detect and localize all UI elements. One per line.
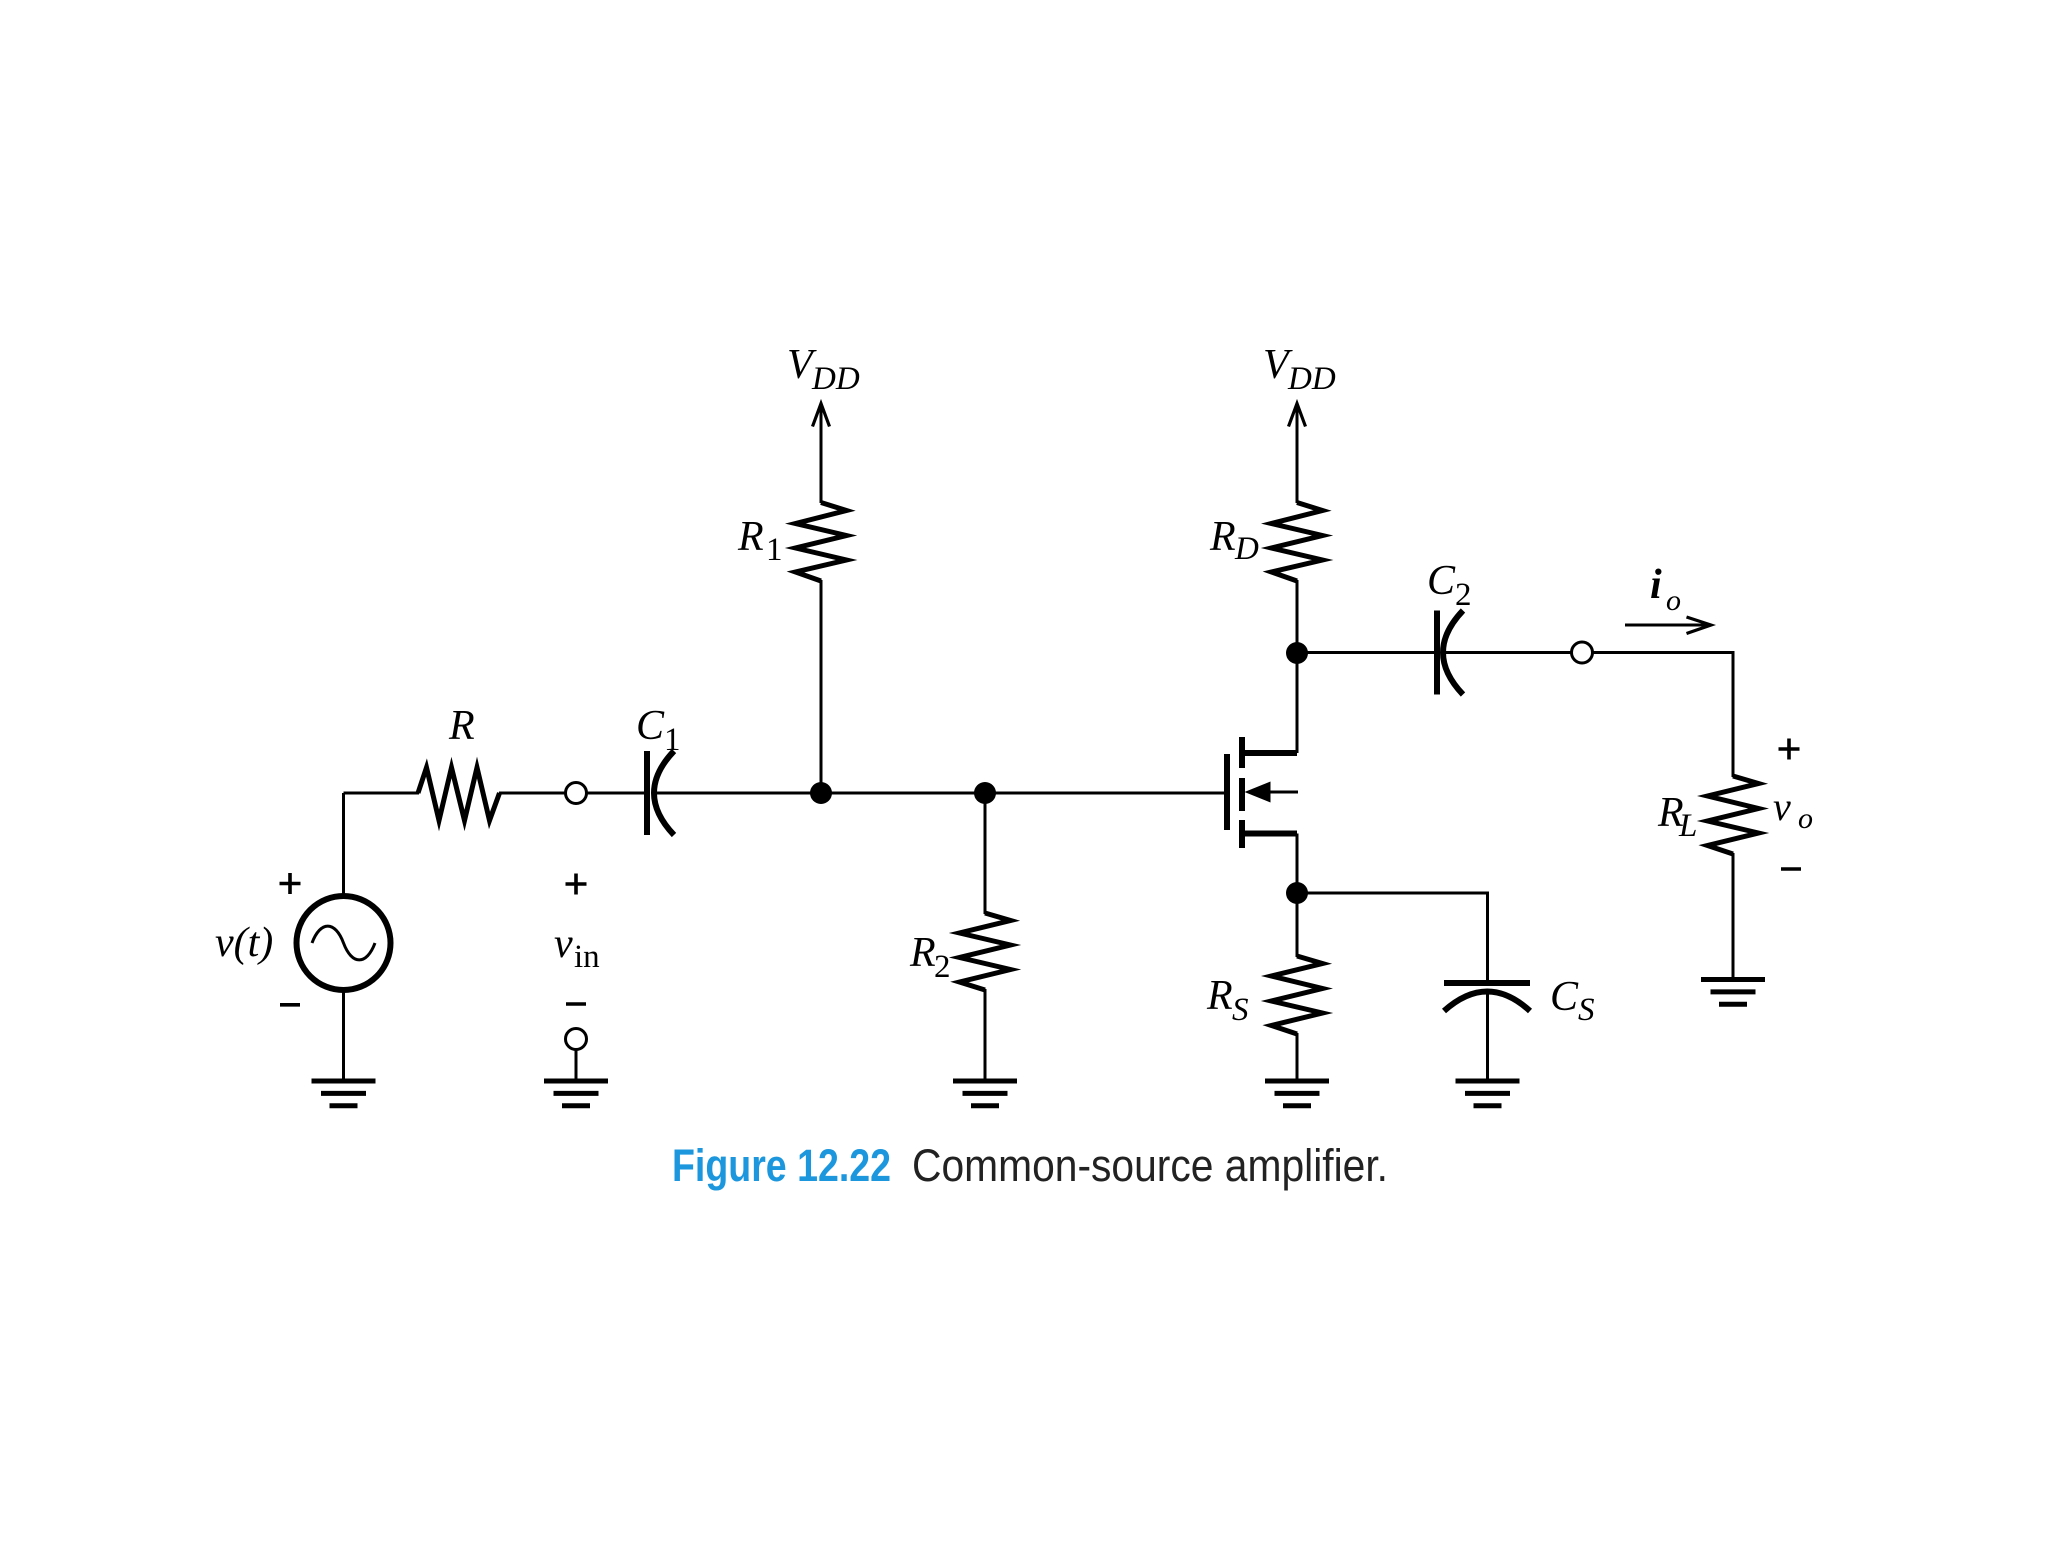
svg-text:S: S	[1232, 992, 1249, 1028]
wire RL to ground	[1732, 853, 1735, 978]
svg-text:2: 2	[1455, 577, 1472, 613]
svg-text:o: o	[1798, 802, 1813, 835]
svg-text:S: S	[1578, 992, 1595, 1028]
source v(t)	[297, 896, 391, 990]
svg-text:2: 2	[934, 949, 951, 985]
svg-text:R: R	[1209, 514, 1236, 560]
capacitor CS	[1444, 983, 1530, 1011]
ground (RS)	[1265, 1081, 1329, 1106]
resistor R	[418, 768, 500, 821]
ground (CS)	[1456, 1081, 1520, 1106]
svg-text:v: v	[1773, 784, 1791, 829]
wire terminal to RL corner	[1593, 653, 1734, 778]
plus sign of vin	[566, 874, 587, 895]
wire CS to ground	[1486, 993, 1489, 1079]
wire source node to RS	[1296, 893, 1299, 957]
resistor R1	[796, 503, 847, 582]
svg-text:in: in	[574, 939, 600, 975]
wire source top	[342, 793, 345, 896]
wire R2 to ground	[984, 989, 987, 1079]
svg-text:R: R	[1206, 973, 1233, 1019]
node A (R1 junction)	[810, 782, 832, 804]
svg-text:v(t): v(t)	[215, 920, 273, 966]
svg-text:Common-source amplifier.: Common-source amplifier.	[912, 1140, 1388, 1191]
svg-text:Figure 12.22: Figure 12.22	[672, 1140, 891, 1191]
capacitor C1	[647, 751, 674, 835]
node B (R2 junction)	[974, 782, 996, 804]
VDD arrow (right)	[1289, 404, 1306, 504]
wire source top horizontal	[344, 792, 420, 795]
plus sign of v(t)	[280, 873, 301, 894]
wire source down	[1296, 834, 1299, 894]
svg-text:C: C	[636, 703, 665, 749]
node drain	[1286, 642, 1308, 664]
ground (RL)	[1701, 980, 1765, 1005]
node terminal (open) after R	[566, 783, 587, 804]
wire source bottom	[342, 990, 345, 1079]
svg-text:DD: DD	[1287, 361, 1336, 397]
svg-text:D: D	[1234, 531, 1259, 567]
resistor RL	[1708, 776, 1759, 854]
svg-text:1: 1	[664, 722, 681, 758]
svg-text:C: C	[1427, 558, 1456, 604]
svg-text:v: v	[554, 921, 573, 967]
wire drain node to RD	[1296, 580, 1299, 653]
svg-text:R: R	[448, 703, 475, 749]
svg-text:1: 1	[766, 532, 783, 568]
wire terminal to C1	[587, 792, 645, 795]
svg-text:i: i	[1650, 562, 1662, 608]
wire C2 to output terminal	[1446, 651, 1572, 654]
ground (R2)	[953, 1081, 1017, 1106]
transistor M1 (NMOS)	[1227, 737, 1298, 848]
resistor R2	[960, 913, 1011, 990]
resistor RD	[1272, 503, 1323, 582]
svg-text:C: C	[1550, 974, 1579, 1020]
svg-text:R: R	[737, 514, 764, 560]
ground (vin)	[544, 1081, 608, 1106]
wire node A to R1	[820, 580, 823, 793]
node source	[1286, 882, 1308, 904]
wire source node to CS	[1297, 893, 1488, 981]
output terminal (open)	[1572, 642, 1593, 663]
minus sign of vo	[1781, 867, 1801, 871]
svg-text:L: L	[1678, 808, 1697, 844]
resistor RS	[1272, 956, 1323, 1034]
svg-text:DD: DD	[811, 361, 860, 397]
ground (v(t))	[312, 1081, 376, 1106]
wire node B to R2	[984, 793, 987, 914]
wire C1 to gate	[656, 792, 1224, 795]
arrow io	[1625, 617, 1711, 634]
plus sign of vo	[1779, 739, 1800, 760]
wire RS to ground	[1296, 1033, 1299, 1079]
VDD arrow (left)	[813, 404, 830, 504]
wire drain node to C2	[1297, 651, 1434, 654]
wire drain up	[1296, 653, 1299, 753]
wire vin terminal stem	[575, 1050, 578, 1080]
minus sign of v(t)	[280, 1003, 300, 1007]
wire R to terminal	[499, 792, 566, 795]
minus sign of vin	[566, 1002, 586, 1006]
svg-text:R: R	[909, 930, 936, 976]
svg-text:o: o	[1666, 584, 1681, 617]
terminal vin (open)	[566, 1029, 587, 1050]
capacitor C2	[1437, 611, 1463, 695]
